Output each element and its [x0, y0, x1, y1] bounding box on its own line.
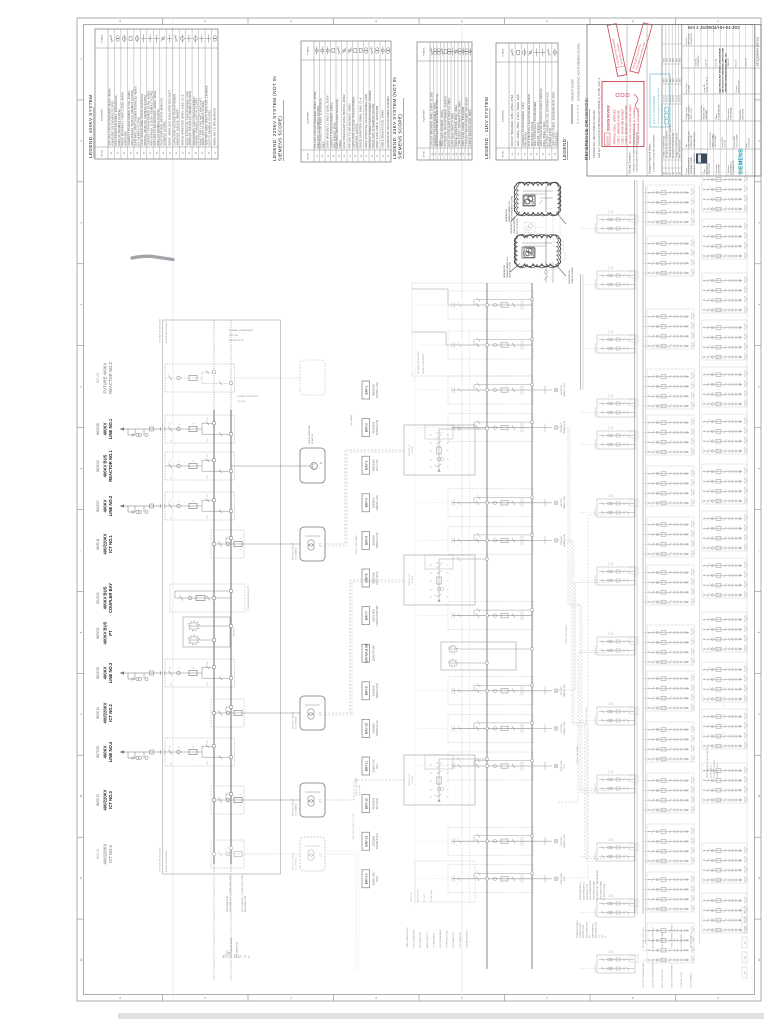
svg-text:DS: DS [171, 476, 173, 478]
svg-text:11KV FDR: 11KV FDR [692, 587, 694, 595]
svg-text:CT: CT [448, 466, 450, 468]
svg-text:EQUIPMENT: EQUIPMENT [308, 111, 310, 124]
svg-text:APPROVAL CODE 1 : APPROVED: APPROVAL CODE 1 : APPROVED [614, 109, 617, 145]
svg-text:11KV FDR: 11KV FDR [692, 478, 694, 486]
svg-text:DS: DS [171, 439, 173, 441]
svg-text:11KV FDR: 11KV FDR [745, 221, 747, 229]
svg-text:400KV BUS: 400KV BUS [103, 586, 108, 609]
svg-text:RE-ISSUED FOR APPROVAL: RE-ISSUED FOR APPROVAL [672, 133, 675, 158]
svg-text:SVE: SVE [609, 770, 611, 773]
svg-text:CT: CT [179, 423, 181, 425]
svg-text:Client:: Client: [703, 168, 706, 174]
svg-text:11KV FDR: 11KV FDR [745, 533, 747, 541]
svg-text:15: 15 [202, 151, 204, 154]
svg-text:DS1: DS1 [207, 438, 209, 441]
400kV line bay NO.3 [96, 659, 235, 687]
svg-text:ICT: ICT [320, 799, 323, 803]
11kV feeder compartments upper row [643, 185, 696, 963]
svg-text:B03C11: B03C11 [96, 538, 100, 550]
svg-text:220/33KV TR: 220/33KV TR [595, 507, 597, 517]
svg-text:SVE: SVE [609, 394, 611, 397]
svg-text:TRANS-2 (FR): TRANS-2 (FR) [563, 421, 566, 434]
svg-text:Designer's Approval Stamp :: Designer's Approval Stamp : [649, 142, 652, 174]
svg-text:11KV FDR: 11KV FDR [692, 549, 694, 557]
svg-text:BAY-9: BAY-9 [364, 686, 368, 695]
svg-text:6: 6 [757, 467, 761, 469]
svg-text:63KA/3SEC (IN SIEMENS SCOPE): 63KA/3SEC (IN SIEMENS SCOPE) [111, 101, 115, 145]
svg-text:CT (PROTECTION): CT (PROTECTION) [447, 930, 449, 948]
svg-text:005: 005 [612, 562, 614, 565]
svg-text:400/220KV: 400/220KV [373, 459, 376, 471]
svg-text:TRANS-2 (FR): TRANS-2 (FR) [376, 420, 379, 436]
red diagonal stamp 1 [607, 24, 626, 77]
svg-text:GENERATOR: GENERATOR [505, 209, 508, 222]
svg-text:AKS: AKS [669, 77, 672, 82]
future 400kV bus reactor bay NO.2 [96, 360, 325, 395]
fold marks [172, 18, 174, 1001]
svg-text:T: T [457, 544, 459, 545]
svg-text:005: 005 [612, 894, 614, 897]
svg-text:400KV BUS: 400KV BUS [103, 621, 108, 644]
svg-text:AT LINE END: AT LINE END [562, 239, 565, 250]
svg-text:IS: IS [605, 935, 607, 938]
svg-text:11KV FDR: 11KV FDR [692, 197, 694, 205]
svg-text:H4-SSR: H4-SSR [689, 85, 691, 93]
11kV switchgear container lines [645, 186, 647, 944]
svg-text:4: 4 [757, 303, 761, 305]
svg-text:12.02.21: 12.02.21 [673, 95, 675, 102]
svg-text:DISCONNECTOR: DISCONNECTOR [227, 895, 229, 912]
svg-text:ICT: ICT [320, 712, 323, 716]
svg-text:11KV FDR: 11KV FDR [692, 381, 694, 389]
220kV bay BAY-10 [417, 714, 566, 742]
svg-text:11KV FDR: 11KV FDR [692, 417, 694, 425]
svg-text:DISCONNECTOR WITH EARTH SWITCH: DISCONNECTOR WITH EARTH SWITCH, [435, 93, 439, 146]
svg-text:CT: CT [448, 450, 450, 452]
svg-text:FIRST SUBMISSION: FIRST SUBMISSION [680, 140, 682, 158]
svg-text:LINE NO.1: LINE NO.1 [108, 418, 113, 439]
400kV main bus 1 [213, 410, 215, 864]
svg-text:400KV: 400KV [103, 745, 108, 758]
svg-text:F: F [289, 20, 293, 22]
future generator transformer link [524, 206, 565, 260]
svg-text:TRANS-1 (FR): TRANS-1 (FR) [563, 383, 566, 396]
svg-text:BAY-4: BAY-4 [364, 498, 368, 507]
svg-text:11KV FDR: 11KV FDR [745, 775, 747, 783]
svg-text:2: 2 [79, 140, 83, 142]
svg-text:400/220KV ICT: 400/220KV ICT [409, 773, 411, 786]
svg-text:ICT NO.4: ICT NO.4 [108, 844, 113, 862]
svg-text:NO.2: NO.2 [564, 876, 566, 882]
svg-text:SIEMENS: SIEMENS [739, 149, 745, 175]
svg-text:11KV FDR: 11KV FDR [692, 401, 694, 409]
generator transformer cloud 1 [510, 182, 566, 234]
svg-text:400/220KV 500MVA: 400/220KV 500MVA [292, 711, 295, 729]
svg-text:DIAGRAM (SLD): DIAGRAM (SLD) [693, 132, 696, 147]
svg-text:CONNECTIONS: CONNECTIONS [717, 763, 719, 778]
svg-text:BAY-1: BAY-1 [364, 385, 368, 394]
svg-text:11KV FDR: 11KV FDR [745, 416, 747, 424]
svg-text:220/33KV: 220/33KV [561, 836, 563, 845]
svg-text:11KV FDR: 11KV FDR [745, 379, 747, 387]
svg-text:220/33KV: 220/33KV [561, 498, 563, 507]
svg-text:ES: ES [431, 563, 433, 566]
svg-text:11KV FDR: 11KV FDR [745, 486, 747, 494]
svg-text:DS: DS [171, 516, 173, 518]
svg-text:TY000N-HB MODULE (TP): TY000N-HB MODULE (TP) [248, 585, 250, 611]
svg-text:33KV / 11KV: 33KV / 11KV [691, 108, 693, 120]
svg-text:PT: PT [108, 630, 113, 636]
svg-text:11KV FDR: 11KV FDR [692, 795, 694, 803]
red approval stamp box [602, 82, 644, 147]
svg-text:1B: 1B [676, 171, 678, 174]
400kV bus coupler bay [96, 583, 250, 613]
svg-text:POWER/CONTROL: POWER/CONTROL [577, 919, 579, 938]
svg-text:11KV FDR: 11KV FDR [745, 741, 747, 749]
svg-text:(NOT IN SIEMENS SCOPE): (NOT IN SIEMENS SCOPE) [208, 110, 212, 145]
svg-text:PROJECT, UDANGUDI: PROJECT, UDANGUDI [693, 153, 696, 174]
svg-text:11KV FDR: 11KV FDR [692, 775, 694, 783]
svg-text:220KV XLPE CABLE: 220KV XLPE CABLE [355, 535, 358, 554]
svg-text:11KV FDR: 11KV FDR [745, 865, 747, 873]
svg-text:11KV FDR: 11KV FDR [745, 496, 747, 504]
svg-text:12.02.21: 12.02.21 [664, 95, 666, 102]
svg-text:INSIDE SR BUILDING: INSIDE SR BUILDING [166, 850, 168, 872]
svg-text:B02C08 TOP UP: B02C08 TOP UP [229, 340, 245, 342]
svg-text:CT: CT [448, 580, 450, 582]
svg-text:TRANS-2 (FR): TRANS-2 (FR) [376, 683, 379, 699]
svg-text:SR NO.: SR NO. [503, 150, 505, 158]
svg-text:SVE: SVE [609, 562, 611, 565]
legend table 33kV system [392, 42, 472, 160]
svg-text:SIEMENS SCOPE): SIEMENS SCOPE) [398, 114, 403, 159]
400/220kV ICT bay NO.2 [96, 696, 325, 730]
svg-text:CT: CT [179, 746, 181, 748]
svg-text:11KV FDR: 11KV FDR [692, 856, 694, 864]
svg-text:RKG: RKG [670, 57, 672, 62]
svg-text:ICT-1 (FR): ICT-1 (FR) [376, 459, 379, 470]
svg-text:LEGEND - 11KV SYSTEM: LEGEND - 11KV SYSTEM [484, 97, 489, 159]
svg-text:005: 005 [612, 494, 614, 497]
svg-text:TRANS-2 (FR): TRANS-2 (FR) [563, 684, 566, 697]
svg-text:GENERATOR TRANSFORMER 20/245KV: GENERATOR TRANSFORMER 20/245KV [386, 96, 390, 149]
svg-text:11: 11 [79, 876, 83, 879]
svg-text:AKS: AKS [679, 77, 682, 82]
svg-text:B07C08: B07C08 [96, 746, 100, 758]
svg-text:INCOMER-2 FROM ST-2: INCOMER-2 FROM ST-2 [653, 927, 655, 948]
svg-text:This review does not relieve t: This review does not relieve the supplie… [629, 104, 632, 144]
svg-text:11KV FDR: 11KV FDR [745, 332, 747, 340]
svg-text:THERMAL POWER: THERMAL POWER [690, 156, 693, 174]
svg-text:11KV FDR: 11KV FDR [692, 468, 694, 476]
svg-text:9: 9 [757, 713, 761, 715]
svg-text:Format:: Format: [735, 85, 738, 92]
svg-text:11KV FDR: 11KV FDR [692, 539, 694, 547]
svg-text:06: 06 [144, 151, 146, 154]
svg-text:13: 13 [189, 151, 191, 154]
svg-text:ES: ES [431, 433, 433, 436]
svg-text:BUSBAR COMPARTMENT: BUSBAR COMPARTMENT [237, 395, 260, 398]
svg-text:DS1: DS1 [207, 761, 209, 764]
svg-text:T: T [457, 349, 459, 350]
svg-text:BAY-6: BAY-6 [364, 573, 368, 582]
svg-text:12.02.21: 12.02.21 [676, 95, 678, 102]
11kV feeder compartments lower row [702, 172, 749, 933]
svg-text:400/220KV: 400/220KV [103, 789, 108, 810]
svg-text:11KV FDR: 11KV FDR [692, 657, 694, 665]
svg-text:ES: ES [431, 449, 433, 452]
svg-text:220/33KV: 220/33KV [373, 685, 376, 696]
svg-text:REFERENCE DRAWINGS:: REFERENCE DRAWINGS: [584, 97, 589, 160]
svg-text:11KV FDR: 11KV FDR [692, 488, 694, 496]
svg-text:11KV FDR: 11KV FDR [692, 637, 694, 645]
svg-text:005: 005 [612, 210, 614, 213]
svg-text:LV: LV [723, 704, 725, 707]
svg-text:400/220KV: 400/220KV [373, 797, 376, 809]
ICT-3 220kV cable route [325, 780, 404, 800]
svg-text:GENERAL ARRANGEMENT UPDATED: GENERAL ARRANGEMENT UPDATED [669, 124, 672, 158]
svg-text:ES: ES [431, 571, 433, 574]
svg-text:RKG: RKG [664, 57, 666, 62]
red diagonal stamp 2 [630, 23, 652, 74]
svg-text:11KV FDR: 11KV FDR [745, 845, 747, 853]
svg-text:DS2: DS2 [207, 740, 209, 743]
svg-text:DG SET SUPPLY: DG SET SUPPLY [691, 932, 693, 948]
svg-text:400/220KV: 400/220KV [103, 533, 108, 554]
svg-text:500 MVA: 500 MVA [411, 446, 414, 454]
svg-text:NO.1: NO.1 [376, 763, 379, 769]
svg-text:SVE: SVE [609, 838, 611, 841]
svg-text:ICT NO.3: ICT NO.3 [108, 790, 113, 808]
svg-text:CODE 3 : REVISE AND RESUBMIT: CODE 3 : REVISE AND RESUBMIT [621, 108, 624, 145]
svg-text:400/220KV 500MVA: 400/220KV 500MVA [292, 542, 295, 560]
future 220kV cable route [325, 854, 356, 970]
svg-text:GENERATOR: GENERATOR [503, 265, 506, 278]
svg-text:220/33KV TR: 220/33KV TR [595, 439, 597, 449]
svg-text:14: 14 [195, 151, 197, 154]
svg-text:11KV FDR: 11KV FDR [745, 295, 747, 303]
svg-text:11KV FDR: 11KV FDR [745, 369, 747, 377]
svg-text:CT: CT [448, 434, 450, 436]
svg-text:SURGE ARRESTER: SURGE ARRESTER [413, 929, 416, 948]
400kV line bay NO.1 [96, 415, 235, 443]
svg-text:DS2: DS2 [207, 417, 209, 420]
generator transformer cloud 2 [516, 234, 574, 284]
svg-text:11KV FDR: 11KV FDR [745, 194, 747, 202]
svg-text:220/33KV TR: 220/33KV TR [595, 223, 597, 233]
svg-text:ES: ES [431, 465, 433, 468]
svg-text:11KV FDR: 11KV FDR [745, 674, 747, 682]
svg-text:T: T [457, 394, 459, 395]
svg-text:LV: LV [723, 722, 725, 725]
svg-text:SVE: SVE [609, 950, 611, 953]
svg-text:ES: ES [170, 423, 172, 425]
svg-text:11KV FDR: 11KV FDR [692, 894, 694, 902]
svg-text:11KV FDR: 11KV FDR [692, 826, 694, 834]
ICT infeed example callout labels [406, 888, 468, 948]
svg-text:01: 01 [317, 154, 319, 157]
svg-text:05: 05 [537, 152, 539, 155]
svg-text:CIRCUIT BREAKER: CIRCUIT BREAKER [439, 929, 442, 948]
svg-text:AKS: AKS [666, 77, 669, 82]
svg-text:11KV FDR: 11KV FDR [692, 577, 694, 585]
220kV bay BAY-11 [417, 752, 566, 780]
svg-text:3: 3 [79, 222, 83, 224]
svg-text:11KV FDR: 11KV FDR [692, 341, 694, 349]
svg-text:11KV SWITCHGEAR: 11KV SWITCHGEAR [599, 881, 602, 900]
svg-text:ISSUED FOR APPROVAL: ISSUED FOR APPROVAL [663, 136, 666, 158]
svg-text:33KV XLPE CABLE, 630SQMM: 33KV XLPE CABLE, 630SQMM [461, 107, 465, 147]
svg-text:BUS COUPLER 11KV: BUS COUPLER 11KV [662, 969, 664, 988]
svg-text:ES: ES [431, 458, 433, 461]
svg-text:CT: CT [179, 460, 181, 462]
svg-text:11KV FDR: 11KV FDR [745, 543, 747, 551]
svg-text:11KV FDR: 11KV FDR [745, 570, 747, 578]
svg-text:11KV FDR: 11KV FDR [692, 567, 694, 575]
svg-text:GAS/AIR BUSHING: GAS/AIR BUSHING [465, 930, 468, 948]
svg-text:Checked: AKS: Checked: AKS [736, 134, 739, 148]
svg-text:7: 7 [757, 549, 761, 551]
svg-text:11KV FDR: 11KV FDR [745, 765, 747, 773]
svg-text:ES: ES [170, 500, 172, 502]
svg-text:11KV FDR: 11KV FDR [692, 248, 694, 256]
svg-text:9: 9 [79, 713, 83, 715]
svg-text:OUTSIDE SR BUILDING: OUTSIDE SR BUILDING [160, 847, 162, 872]
svg-text:TRANS-1 (FR): TRANS-1 (FR) [376, 495, 379, 511]
svg-text:SR NO.: SR NO. [424, 150, 426, 158]
svg-text:09: 09 [163, 151, 165, 154]
svg-text:400/220KV: 400/220KV [103, 843, 108, 864]
svg-text:EQUIPMENT: EQUIPMENT [424, 109, 426, 122]
svg-text:CT: CT [448, 789, 450, 791]
svg-text:T: T [457, 432, 459, 433]
svg-text:OUTSIDE GIS BUILDING: OUTSIDE GIS BUILDING [418, 351, 420, 374]
svg-text:GAB SLD : (S-GT-ETB-AC-21BUS2/: GAB SLD : (S-GT-ETB-AC-21BUS2/81UKSP-4B4… [598, 77, 601, 158]
ICT-3 220kV infeed module [404, 755, 488, 805]
portrait-space scanner shadow bar at page bottom [118, 1013, 764, 1019]
svg-text:FUTURE 400KV: FUTURE 400KV [103, 362, 108, 393]
svg-text:NO.2: NO.2 [376, 875, 379, 881]
svg-text:11KV FDR: 11KV FDR [745, 389, 747, 397]
svg-text:SYMBOL: SYMBOL [503, 47, 505, 57]
400/220kV ICT bay NO.1 [96, 527, 325, 561]
svg-text:11KV FDR: 11KV FDR [692, 268, 694, 276]
svg-text:4000-2000/1A, 5P20 (IN SIEMENS: 4000-2000/1A, 5P20 (IN SIEMENS SCOPE) [130, 90, 134, 145]
svg-text:G: G [203, 20, 207, 22]
reference drawings notes [584, 77, 601, 160]
svg-text:INCOMER-1 FROM ST-1: INCOMER-1 FROM ST-1 [643, 927, 645, 948]
svg-text:DIAGRAM: DIAGRAM [705, 110, 708, 120]
svg-text:Drawing Contractor :: Drawing Contractor : [629, 151, 632, 174]
svg-text:07: 07 [350, 154, 352, 157]
svg-text:01: 01 [512, 152, 514, 155]
svg-text:EARTH SWITCH: EARTH SWITCH [426, 932, 429, 948]
svg-text:TRANS-1 (FR): TRANS-1 (FR) [563, 496, 566, 509]
220kV GT-2 incomer bay [412, 331, 533, 359]
svg-text:LV PCC BOARD-2: LV PCC BOARD-2 [690, 972, 693, 988]
svg-text:CT: CT [179, 500, 181, 502]
svg-text:SF6 GAS TO AIR BUSHING, 245KV: SF6 GAS TO AIR BUSHING, 245KV [348, 103, 352, 148]
svg-text:11KV FDR: 11KV FDR [745, 895, 747, 903]
svg-text:11KV FDR: 11KV FDR [745, 241, 747, 249]
svg-text:11KV FDR: 11KV FDR [692, 311, 694, 319]
svg-text:B03C02: B03C02 [96, 460, 100, 472]
svg-text:ELECTRICAL KEY: ELECTRICAL KEY [688, 130, 691, 147]
svg-text:DISCONNECTOR: DISCONNECTOR [453, 931, 455, 948]
svg-text:11KV FDR: 11KV FDR [692, 785, 694, 793]
svg-text:11KV FDR: 11KV FDR [745, 204, 747, 212]
svg-text:CB: CB [602, 935, 604, 938]
svg-text:4: 4 [79, 303, 83, 305]
svg-text:11/0.415KV, 2MVA: 11/0.415KV, 2MVA [680, 972, 683, 988]
svg-text:CT: CT [448, 596, 450, 598]
svg-text:ES: ES [431, 595, 433, 598]
svg-text:BAY-2: BAY-2 [364, 423, 368, 432]
svg-text:11KV FDR: 11KV FDR [745, 174, 747, 182]
svg-text:220KV LINE: 220KV LINE [561, 873, 563, 885]
svg-text:SR NO.: SR NO. [308, 152, 310, 160]
svg-text:Size: A0: Size: A0 [724, 139, 727, 147]
svg-text:B03C12: B03C12 [96, 707, 100, 719]
svg-text:SWITCHGEAR ROOM SR BLDG-1: SWITCHGEAR ROOM SR BLDG-1 [706, 746, 709, 778]
svg-text:CB: CB [193, 500, 195, 502]
svg-text:11KV FDR: 11KV FDR [692, 447, 694, 455]
svg-text:CT: CT [448, 796, 450, 798]
svg-text:220KV XLPE CABLE: 220KV XLPE CABLE [565, 625, 568, 644]
svg-text:SURGE ARRESTER 390KV, 10KA, CL: SURGE ARRESTER 390KV, 10KA, CL-5 [180, 94, 184, 145]
svg-text:220/33KV TR: 220/33KV TR [595, 963, 597, 973]
svg-text:09: 09 [361, 154, 363, 157]
svg-text:11KV FDR: 11KV FDR [745, 523, 747, 531]
svg-text:ICT-4 YNA0D11: ICT-4 YNA0D11 [295, 857, 298, 870]
svg-text:LEGEND: 220KV SYSTEM (NOT IN: LEGEND: 220KV SYSTEM (NOT IN [272, 76, 277, 161]
svg-text:ELECTRICAL KEY SINGLE LINE DIA: ELECTRICAL KEY SINGLE LINE DIAGRAM [719, 48, 722, 92]
svg-text:A0 841X1189: A0 841X1189 [738, 80, 741, 93]
svg-text:11KV FDR: 11KV FDR [692, 744, 694, 752]
svg-text:5: 5 [79, 385, 83, 387]
example bay abbreviations 400kV [222, 875, 250, 958]
svg-text:GIS SYSTEM: GIS SYSTEM [715, 135, 717, 148]
svg-text:12: 12 [377, 154, 379, 157]
svg-text:LV SWITCHGEAR: LV SWITCHGEAR [603, 883, 606, 900]
svg-text:11KV FDR: 11KV FDR [692, 427, 694, 435]
svg-text:220KV MAIN BUS 1 / BUS 2 (GIB): 220KV MAIN BUS 1 / BUS 2 (GIB), 3150A [326, 95, 330, 148]
svg-text:LV PCC BOARD-1: LV PCC BOARD-1 [680, 932, 683, 948]
svg-text:LV: LV [723, 731, 725, 734]
220kV bay BAY-4 [417, 489, 566, 517]
svg-text:STATION TRANSFORMER 33/0.415KV: STATION TRANSFORMER 33/0.415KV [465, 97, 469, 147]
svg-text:8: 8 [757, 631, 761, 633]
svg-text:SR NO.: SR NO. [102, 149, 104, 157]
svg-text:02: 02 [118, 151, 120, 154]
svg-text:14: 14 [388, 154, 390, 157]
220kV bay BAY-1 [417, 376, 566, 404]
svg-text:CT: CT [448, 780, 450, 782]
svg-text:11KV FDR: 11KV FDR [745, 795, 747, 803]
svg-text:AKS: AKS [675, 77, 678, 82]
svg-text:11KV FDR: 11KV FDR [692, 391, 694, 399]
svg-text:1: 1 [79, 58, 83, 60]
svg-text:220/33KV TR: 220/33KV TR [595, 783, 597, 793]
svg-text:B07-05: B07-05 [96, 373, 100, 384]
svg-text:ES: ES [431, 579, 433, 582]
svg-text:400KV BUS: 400KV BUS [103, 454, 108, 477]
svg-text:11KV FDR: 11KV FDR [745, 184, 747, 192]
svg-text:CODE 2 : APPROVED AS NOTED: CODE 2 : APPROVED AS NOTED [617, 109, 620, 144]
svg-text:FOR APPROVAL: FOR APPROVAL [718, 103, 721, 119]
svg-text:220KV MAIN BUS-2: 220KV MAIN BUS-2 [582, 881, 585, 900]
svg-text:ICT: ICT [320, 853, 323, 857]
